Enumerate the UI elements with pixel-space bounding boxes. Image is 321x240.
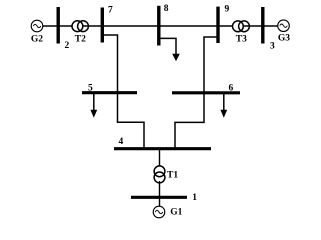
bus 8 [157, 6, 160, 46]
bus 3 [261, 7, 264, 44]
wire line 7-5 (bus 7 tap down to bus 5 and on to bus 4) [104, 35, 145, 148]
svg-text:5: 5 [88, 84, 93, 94]
wire line 8-9 [159, 25, 218, 27]
load arrow at bus 8 [172, 54, 180, 62]
wire bus 1 to G1 [159, 198, 161, 208]
svg-text:4: 4 [119, 137, 124, 147]
wire T1 to bus 1 [159, 181, 161, 198]
wire load tap at bus 8 [161, 38, 177, 54]
generator G3 [278, 20, 290, 32]
svg-text:3: 3 [270, 42, 275, 52]
svg-text:2: 2 [65, 41, 70, 51]
svg-text:T2: T2 [75, 34, 86, 44]
svg-text:7: 7 [108, 6, 113, 16]
svg-text:9: 9 [225, 5, 230, 15]
wire line 7-8 [102, 25, 159, 27]
bus 5 [82, 91, 137, 94]
transformer T2 [72, 21, 88, 32]
bus 4 [114, 147, 211, 150]
wire bus 9 to T3 [218, 25, 238, 27]
wire bus 2 to T2 [58, 25, 78, 27]
svg-text:G2: G2 [31, 35, 43, 45]
load arrow at bus 5 [93, 94, 95, 111]
bus 7 [101, 8, 104, 43]
generator G2 [31, 20, 43, 32]
wire T3 to bus 3 [244, 25, 263, 27]
wire T2 to bus 7 [82, 25, 102, 27]
svg-text:G3: G3 [278, 34, 290, 44]
wire line 9-6 (bus 9 tap down to bus 6 and on to bus 4) [175, 37, 217, 148]
transformer T1 [154, 166, 165, 183]
svg-text:1: 1 [192, 193, 197, 203]
bus 6 [172, 91, 240, 94]
svg-text:G1: G1 [170, 208, 182, 218]
bus 1 [131, 196, 187, 199]
wire bus 3 to G3 [263, 25, 284, 27]
svg-text:T1: T1 [167, 171, 178, 181]
load arrow at bus 6 [223, 94, 225, 111]
bus 2 [57, 7, 60, 44]
transformer T3 [233, 21, 250, 32]
wire bus 4 to T1 [159, 149, 161, 167]
svg-text:T3: T3 [236, 34, 247, 44]
wire G2 to bus 2 [37, 25, 58, 27]
bus 9 [216, 7, 219, 43]
svg-text:6: 6 [229, 84, 234, 94]
svg-text:8: 8 [164, 4, 169, 14]
generator G1 [153, 206, 165, 218]
